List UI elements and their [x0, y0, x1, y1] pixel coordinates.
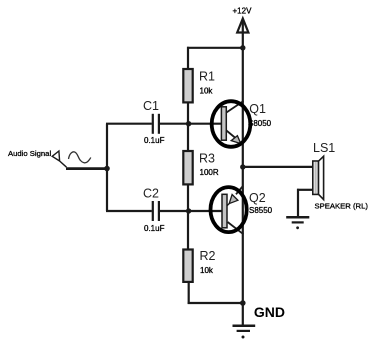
svg-text:+12V: +12V [233, 7, 253, 16]
node top junction [240, 45, 245, 50]
wire speaker bottom lead [297, 189, 313, 191]
svg-text:C1: C1 [143, 99, 159, 113]
wire input [66, 167, 107, 170]
highlight circle around Q2 [211, 187, 247, 232]
node C2 junction [186, 208, 191, 213]
svg-text:C2: C2 [143, 187, 159, 201]
wire main vertical upper [242, 48, 244, 167]
wire Q2 base [189, 210, 222, 212]
speaker LS1 body [313, 161, 319, 194]
svg-text:R2: R2 [200, 249, 216, 263]
node C1 junction [186, 121, 191, 126]
wire bottom rail [188, 302, 243, 304]
svg-text:R3: R3 [199, 152, 215, 166]
svg-text:R1: R1 [199, 70, 215, 84]
wire speaker ground drop [297, 189, 299, 217]
svg-text:Audio Signal: Audio Signal [8, 149, 51, 158]
ground symbol speaker [286, 217, 309, 229]
svg-text:SPEAKER (RL): SPEAKER (RL) [315, 202, 369, 211]
wire R2 bottom lead [188, 282, 190, 305]
wire R3 to C2 node [187, 184, 189, 211]
svg-text:Q1: Q1 [249, 102, 266, 116]
resistor R3 [183, 151, 192, 184]
svg-text:100R: 100R [200, 168, 219, 177]
resistor R2 [183, 250, 192, 282]
wire C2 left lead [106, 210, 152, 212]
svg-text:LS1: LS1 [313, 141, 335, 155]
node input junction [104, 166, 110, 172]
wire Q1 base [189, 123, 222, 125]
wire top rail [187, 47, 243, 49]
wire +12V lead [242, 21, 244, 48]
node ground junction [240, 300, 246, 306]
input probe triangle [52, 151, 66, 167]
highlight circle around Q1 [212, 101, 251, 147]
signal source sine wave [69, 152, 91, 163]
power symbol +12V arrow [237, 19, 248, 33]
wire ground lead [242, 303, 244, 326]
wire speaker top lead [243, 166, 313, 168]
svg-text:10k: 10k [200, 266, 214, 275]
Q2 emitter arrow [229, 195, 238, 204]
capacitor C1 [153, 114, 159, 134]
wire R1 to C1 node [187, 102, 189, 124]
svg-text:0.1uF: 0.1uF [144, 136, 165, 145]
svg-text:10k: 10k [200, 87, 214, 96]
svg-text:0.1uF: 0.1uF [144, 224, 165, 233]
svg-text:Q2: Q2 [249, 191, 266, 205]
node speaker junction [240, 164, 245, 169]
Q2 collector [228, 222, 244, 234]
wire C2 right lead [160, 210, 189, 212]
wire C1 left lead [106, 123, 152, 125]
speaker LS1 body stripe [315, 162, 317, 194]
wire R2 top lead [187, 211, 189, 249]
transistor Q1 base bar [221, 107, 226, 140]
Q1 collector [226, 101, 243, 113]
ground symbol main [233, 326, 256, 339]
Q1 emitter [226, 131, 238, 141]
transistor Q2 base bar [222, 194, 227, 228]
wire R3 top lead [187, 124, 189, 151]
capacitor C2 [153, 201, 159, 221]
wire input riser [106, 124, 108, 211]
svg-text:GND: GND [254, 304, 285, 320]
Q1 emitter arrow [231, 136, 241, 144]
resistor R1 [183, 69, 192, 102]
wire main vertical lower [242, 167, 244, 303]
speaker LS1 cone [319, 156, 324, 199]
Q2 emitter [236, 186, 243, 195]
Q2 emitter tail [227, 204, 229, 206]
svg-text:S8550: S8550 [249, 206, 273, 215]
wire left branch top [187, 47, 189, 70]
wire C1 right lead [160, 123, 189, 125]
